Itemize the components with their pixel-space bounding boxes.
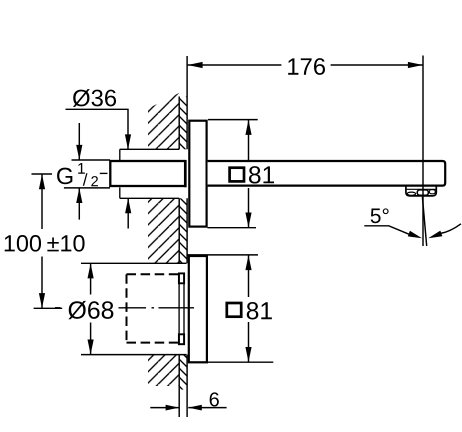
6 right arrow [188,405,202,411]
lower 81 bottom arrow [245,347,251,362]
label diameter 68 [68,301,113,319]
upper 81 bottom arrow [245,213,251,228]
label 81 lower [247,302,272,319]
lower wall plate [189,256,207,362]
Ø68 top arrow [88,263,94,278]
5deg leader + arc left [364,226,409,235]
pipe end face at wall [184,160,186,187]
upper 81 top arrow [245,120,251,135]
Ø36 lower arrow tail [127,199,129,229]
upper 81 extension lines [208,120,258,228]
G1/2 pipe nipple (thick) [110,161,185,186]
arrowheads [39,62,442,411]
G1/2 extension lines [64,160,110,188]
wall finish band hatch middle [179,198,187,263]
176 right extension line [422,56,424,247]
G1/2 bottom arrow [76,188,82,203]
label G 1/2 [57,168,72,185]
label 5 degrees [371,208,389,223]
G1/2 top arrow [76,145,82,160]
square symbol lower 81 [227,303,241,317]
upper wall plate [189,121,206,227]
wall sparse hatch lower [148,355,179,386]
6 left arrow [166,405,180,411]
100±10 end ticks [32,174,63,308]
Ø36 top arrow [125,134,131,149]
wall finish band hatch upper [179,97,187,150]
wall finish band hatch lower [179,355,187,390]
label 176 [288,58,325,75]
wall sparse hatch middle [148,198,179,263]
body centreline dash-dot [119,307,195,309]
100±10 top arrow [39,174,45,189]
6 dimension lines [150,407,226,409]
5deg right arrow [428,231,442,239]
Ø68 boundary/extension lines [81,263,187,354]
square symbol upper 81 [230,168,244,182]
label 100 plus-minus 10 [5,235,85,252]
5deg arc right [441,224,462,234]
concealed body dashed outline [127,274,179,342]
Ø36 leader [66,109,129,149]
5deg left arrow [408,231,422,239]
lower 81 dimension line [248,255,250,362]
wall finish band left boundary line [178,97,180,418]
5deg tilted line [422,197,426,246]
lower 81 top arrow [245,255,251,270]
upper 81 dimension line [248,120,250,228]
176 left arrow [188,62,203,68]
pipe centreline tick [100,172,108,174]
100±10 bottom arrow [39,293,45,308]
label 81 upper [249,166,274,183]
176 dimension line [188,64,424,66]
label diameter 36 [73,89,116,107]
lower 81 extension lines [188,255,274,362]
Ø68 dimension line [90,263,92,354]
176 right arrow [408,62,423,68]
Ø36 bottom arrow [125,198,131,213]
Ø68 centreline ticks [55,307,61,309]
G1/2 arrow tails [78,123,80,220]
rim top block [179,273,184,283]
wall face line / 176 extension line [186,56,188,417]
rim bottom block [179,334,184,344]
Ø36 union cylinder (thin lines) [120,149,179,198]
label 6 [210,392,219,406]
Ø68 bottom arrow [88,340,94,355]
spout outlet / mousseur [406,186,436,196]
concealed body front rim [179,273,184,344]
spout body [208,161,446,186]
labels (text as paths, Liberation Sans shapes) [5,58,389,406]
wall sparse hatch upper [148,93,179,149]
100±10 dimension line [41,175,43,309]
